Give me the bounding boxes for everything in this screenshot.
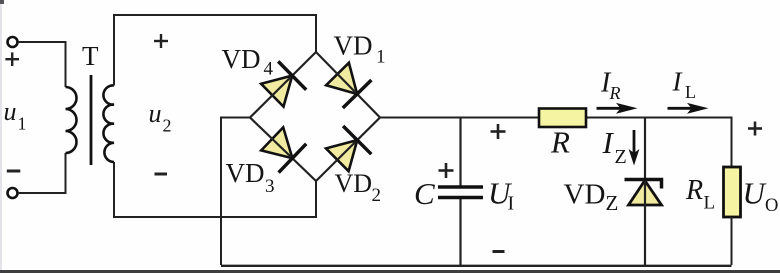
- svg-text:VD: VD: [222, 44, 261, 74]
- svg-text:R: R: [685, 175, 703, 206]
- svg-text:VD: VD: [334, 31, 373, 61]
- wire bottom rail: [221, 265, 732, 267]
- svg-text:R: R: [609, 83, 621, 103]
- wire bridge positive rail to R: [380, 117, 539, 119]
- svg-text:C: C: [414, 176, 435, 211]
- diode VD3 triangle: [261, 127, 292, 158]
- svg-text:u: u: [149, 99, 162, 128]
- svg-text:U: U: [743, 176, 768, 211]
- current arrow IZ: [633, 130, 636, 153]
- label + UO: [748, 122, 762, 136]
- label - UI: [493, 250, 505, 253]
- svg-text:L: L: [685, 82, 696, 102]
- zener cathode bar with hook: [625, 180, 662, 189]
- svg-text:2: 2: [372, 185, 382, 206]
- diode VD1 triangle: [326, 63, 357, 94]
- svg-text:2: 2: [163, 116, 172, 136]
- wire R to load corner: [586, 118, 732, 168]
- current arrow IL: [668, 107, 695, 110]
- terminal input top: [8, 37, 18, 47]
- diode VD2 triangle: [326, 140, 357, 171]
- svg-text:4: 4: [264, 59, 274, 80]
- wire capacitor branch bottom: [459, 197, 461, 265]
- svg-text:VD: VD: [564, 179, 606, 211]
- transformer primary winding: [66, 87, 77, 153]
- svg-text:R: R: [550, 125, 570, 160]
- svg-text:I: I: [602, 125, 615, 160]
- svg-text:VD: VD: [335, 169, 373, 198]
- label + primary: [5, 52, 19, 66]
- svg-text:Z: Z: [606, 191, 619, 215]
- transformer secondary winding: [103, 85, 114, 162]
- svg-text:O: O: [765, 196, 778, 216]
- wire primary top: [18, 42, 66, 87]
- wire secondary bottom: [114, 162, 316, 217]
- wire bridge negative: left corner to bottom rail: [221, 118, 250, 266]
- wire secondary top: [114, 15, 316, 86]
- diode VD1 cathode bar: [343, 80, 372, 108]
- resistor R: [539, 109, 586, 128]
- wire primary bottom: [18, 153, 66, 193]
- terminal input bottom: [8, 188, 18, 198]
- label + secondary: [154, 34, 168, 48]
- top-left corner artifact: [0, 0, 4, 4]
- label + capacitor: [439, 163, 454, 178]
- wire zener branch: [644, 118, 646, 266]
- wire RL bottom: [731, 217, 733, 265]
- label + UI: [491, 124, 506, 139]
- diode VD4 triangle: [261, 76, 292, 107]
- label - secondary: [155, 173, 168, 176]
- diode VD2 cathode bar: [343, 126, 371, 154]
- svg-text:3: 3: [265, 176, 275, 197]
- bridge diamond wires: [250, 52, 380, 181]
- left edge gray strip: [0, 0, 2, 273]
- svg-text:1: 1: [18, 114, 27, 134]
- label - primary: [7, 170, 20, 173]
- svg-text:L: L: [704, 193, 716, 214]
- diode VD4 cathode bar: [278, 61, 306, 89]
- svg-text:T: T: [82, 41, 99, 71]
- bottom dark strip: [0, 270, 780, 273]
- svg-text:I: I: [508, 193, 515, 215]
- svg-text:u: u: [4, 97, 17, 126]
- load resistor RL: [724, 167, 741, 217]
- wire capacitor branch top: [459, 118, 461, 187]
- zener diode VDZ triangle: [629, 181, 662, 206]
- svg-text:Z: Z: [615, 146, 627, 168]
- diode VD3 cathode bar: [279, 144, 307, 173]
- svg-text:VD: VD: [226, 158, 265, 188]
- capacitor C plates: [438, 185, 483, 188]
- current arrow IR: [597, 107, 623, 110]
- svg-text:1: 1: [376, 47, 386, 68]
- transformer core: [90, 75, 93, 165]
